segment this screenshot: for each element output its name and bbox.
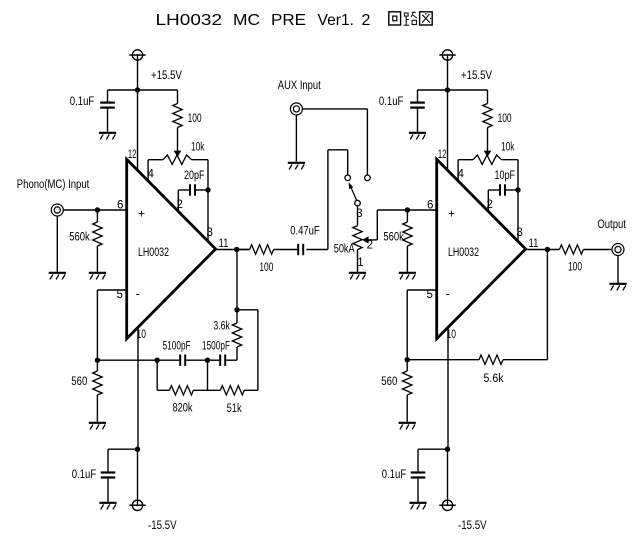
capacitor C decouple +15V left 0.1uF [100,90,115,132]
resistor 3.6k [232,310,241,360]
label 1500pF [202,340,230,352]
svg-text:6: 6 [427,200,433,212]
svg-text:100: 100 [188,113,202,125]
junction output left [234,247,239,252]
wire feedback right vertical [546,250,548,360]
svg-text:10pF: 10pF [495,170,516,182]
resistor 820k [169,386,193,395]
op-amp U2 LH0032 triangle [437,159,526,338]
label -15.5V left [148,520,177,532]
label 10k right [501,141,515,153]
label LH0032 right [448,247,479,259]
svg-text:+: + [138,207,145,221]
svg-text:0.47uF: 0.47uF [290,225,320,237]
svg-text:4: 4 [458,169,465,181]
junction inv node left [95,358,100,363]
capacitor 20pF left [178,184,208,195]
label pin 12 right [438,149,447,161]
label 820k [173,403,193,415]
ground below 50kA [349,273,366,280]
svg-text:LH0032: LH0032 [138,247,169,259]
svg-text:-15.5V: -15.5V [458,520,487,532]
label 100 right bias [498,113,512,125]
wire between 820k 51k [193,360,220,390]
ground below 560k right [399,273,416,280]
svg-text:Output: Output [597,219,626,231]
svg-text:11: 11 [219,238,229,250]
svg-text:12: 12 [128,149,136,161]
label 560k left [69,232,90,244]
svg-text:100: 100 [259,262,273,274]
svg-text:Phono(MC) Input: Phono(MC) Input [17,179,90,191]
junction phono input node [95,207,100,212]
wire inv to 5.6k [407,359,479,361]
capacitor 5100pF [157,355,186,366]
trimmer 10k right zigzag [458,155,518,164]
label Output [597,219,626,231]
label 560 left [71,376,87,388]
wire pin4 right [457,160,459,182]
svg-text:2: 2 [362,12,371,29]
trimmer arrow left [174,151,182,157]
svg-text:5: 5 [427,289,433,301]
wire +15V rail right [418,89,488,91]
svg-text:10k: 10k [501,141,515,153]
wire 820k branch down [157,360,169,390]
svg-text:1: 1 [357,257,363,269]
svg-text:1500pF: 1500pF [202,340,230,352]
wire -15.5V stem right [447,449,449,505]
pot wiper arrow [362,236,369,243]
svg-text:5: 5 [117,289,123,301]
svg-text:50kA: 50kA [334,243,355,255]
wire +15.5V left stem [137,55,139,90]
label 20pF [184,170,205,182]
trimmer arrow right [484,151,492,157]
power terminal -15.5V left [129,500,145,510]
wire pin10 right [447,327,449,449]
resistor 560k left [93,210,102,272]
resistor 560 right [403,360,412,422]
capacitor C decouple +15V right 0.1uF [410,90,425,132]
wire 0.47uF to switch contact [306,150,347,250]
label pin 5 right [427,289,433,301]
label pin 6 right [427,200,433,212]
svg-text:51k: 51k [227,403,242,415]
ground below 0.1uF bottom-right [409,503,426,510]
svg-text:+: + [448,207,455,221]
label pin 3 left [207,227,213,239]
svg-text:3: 3 [517,227,523,239]
wire +15V rail left [108,89,178,91]
resistor 5.6k [479,355,547,364]
svg-text:+15.5V: +15.5V [151,70,182,82]
resistor 51k [220,386,244,395]
resistor 560k right [403,210,412,272]
switch common contact [355,200,361,206]
junction output right [545,247,550,252]
svg-text:10k: 10k [191,141,205,153]
title kanji 回路図 [389,12,432,25]
svg-text:560: 560 [381,376,397,388]
resistor 100 output [559,245,612,254]
capacitor 10pF right [488,184,518,195]
label 0.1uF bottom-left [72,469,97,481]
label AUX Input [278,80,322,92]
capacitor 0.47uF [297,244,304,255]
svg-text:Ver1.: Ver1. [318,12,355,29]
trimmer 10k left zigzag [148,155,208,164]
junction 10pF right node [515,187,520,192]
label pin 5 left [117,289,123,301]
ground below 560 left [89,423,106,430]
label LH0032 left [138,247,169,259]
label pin 4 left [148,169,155,181]
svg-text:12: 12 [438,149,447,161]
label 3.6k [213,320,230,332]
label pot pin 1 [357,257,363,269]
wire pin12 left [137,90,139,171]
label 100 left bias [188,113,202,125]
svg-text:0.1uF: 0.1uF [72,469,97,481]
ground below output connector [609,284,626,291]
label pin 2 right [487,199,493,211]
wire AUX connector to ground [295,115,297,162]
resistor 100 right (bias) [483,90,492,151]
svg-text:-15.5V: -15.5V [148,520,177,532]
svg-text:560k: 560k [383,232,404,244]
switch arm with arrow [349,182,357,201]
label 0.47uF [290,225,320,237]
junction +15V rail left [135,87,140,92]
svg-text:2: 2 [367,240,373,252]
svg-text:20pF: 20pF [184,170,205,182]
wire phono to pin6 [63,209,127,211]
capacitor 0.1uF bottom-left [101,449,138,502]
resistor 100 coupling [237,245,297,254]
svg-text:820k: 820k [173,403,193,415]
label 5100pF [163,340,191,352]
svg-text:560: 560 [71,376,87,388]
junction -15V node right [445,447,450,452]
label op-amp minus left [136,286,140,301]
svg-text:3.6k: 3.6k [213,320,230,332]
label -15.5V right [458,520,487,532]
svg-text:100: 100 [568,262,582,274]
wire +15.5V right stem [447,55,449,90]
wire pin5 left [97,290,126,360]
wire phono connector to ground [56,216,58,272]
label switch pin 3 [356,208,362,220]
junction 5100pF left node [155,358,160,363]
svg-text:0.1uF: 0.1uF [379,96,404,108]
label pin 2 left [177,199,183,211]
wire output junction down left [236,250,238,310]
ground below 0.1uF top-left [99,133,116,140]
label +15.5V right [461,70,492,82]
label 10k left [191,141,205,153]
wire pin2 left [177,190,179,212]
wire feedback top corner [237,310,258,391]
label op-amp plus right [448,207,455,221]
power terminal +15.5V right [439,50,455,60]
label 100 coupling [259,262,273,274]
wire output connector to ground [617,255,619,283]
wire pin3 right vertical [517,160,519,242]
svg-text:4: 4 [148,169,155,181]
label 560 right [381,376,397,388]
label 51k [227,403,242,415]
svg-text:LH0032: LH0032 [448,247,479,259]
ground below AUX connector [288,163,305,170]
power terminal +15.5V left [129,50,145,60]
ground below phono connector [49,273,66,280]
junction 20pF right left-ch [205,187,210,192]
label 0.1uF top-left [70,96,95,108]
wire pin10 left [137,327,139,449]
svg-text:PRE: PRE [271,12,306,29]
svg-text:560k: 560k [69,232,90,244]
label pin 10 left [137,329,147,341]
wire switch common to 50kA [357,206,359,226]
svg-text:-: - [136,286,140,301]
label pin 4 right [458,169,465,181]
wire output pin11 right [526,249,560,251]
op-amp U1 LH0032 triangle [127,159,216,338]
wire pin5 right [407,290,437,360]
svg-text:-: - [446,286,450,301]
ground below 0.1uF bottom-left [99,503,116,510]
label pin 10 right [447,329,457,341]
wire pin2 right [487,190,489,212]
resistor 100 left (bias) [173,90,182,151]
svg-text:0.1uF: 0.1uF [382,469,407,481]
switch contact left (phono amp) [345,175,351,181]
svg-text:MC: MC [233,12,260,29]
svg-text:11: 11 [529,238,539,250]
connector Phono input [51,204,63,216]
label pin 11 left [219,238,229,250]
wire pin3 left vertical [207,160,209,242]
label pin 3 right [517,227,523,239]
svg-text:+15.5V: +15.5V [461,70,492,82]
junction mid feedback [186,358,210,363]
label op-amp minus right [446,286,450,301]
wire AUX to switch contact [302,109,367,175]
ground below 0.1uF top-right [409,133,426,140]
ground below 560 right [399,423,416,430]
label 100 output [568,262,582,274]
capacitor 1500pF [208,355,238,366]
junction -15V node left [135,447,140,452]
svg-text:100: 100 [498,113,512,125]
capacitor 0.1uF bottom-right [411,449,448,502]
wire output pin11 left [216,249,250,251]
label Phono(MC) Input [17,179,90,191]
power terminal -15.5V right [439,500,455,510]
svg-text:5.6k: 5.6k [484,373,504,385]
junction aux input node [405,207,410,212]
wire pin12 right [447,90,449,171]
junction inv node right [405,357,410,362]
potentiometer 50kA [353,226,362,272]
svg-text:AUX Input: AUX Input [278,80,322,92]
wire 51k to corner [244,389,258,391]
label 10pF [495,170,516,182]
svg-text:5100pF: 5100pF [163,340,191,352]
connector AUX input [290,103,302,115]
title text LH0032 MC PRE Ver1.2 [156,12,371,29]
wire pin4 left [147,160,149,182]
label 0.1uF top-right [379,96,404,108]
resistor 560 left [93,360,102,422]
connector Output [612,244,624,256]
switch contact right (AUX) [365,175,371,181]
label pin 6 left [117,200,123,212]
label pin 12 left [128,149,136,161]
label 560k right [383,232,404,244]
wire wiper to op-amp2 pin6 [369,210,437,240]
label pot pin 2 [367,240,373,252]
wire inv to 5100pF [97,359,157,361]
label 5.6k [484,373,504,385]
ground below 560k left [89,273,106,280]
junction +15V rail right [445,87,450,92]
label 0.1uF bottom-right [382,469,407,481]
label op-amp plus left [138,207,145,221]
label pin 11 right [529,238,539,250]
junction feedback top left [234,307,239,312]
svg-text:0.1uF: 0.1uF [70,96,95,108]
svg-text:3: 3 [207,227,213,239]
label +15.5V left [151,70,182,82]
label 50kA [334,243,355,255]
svg-text:LH0032: LH0032 [156,12,223,29]
wire -15.5V stem left [137,449,139,505]
